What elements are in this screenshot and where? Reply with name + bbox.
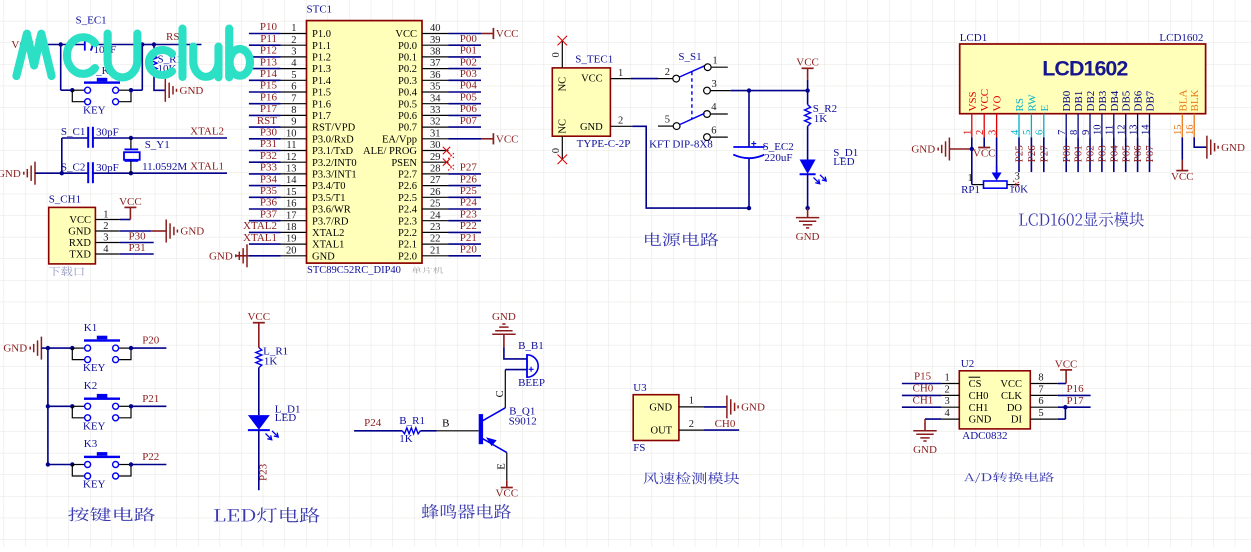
mcu pin 16 name P3.6/WR (312, 205, 351, 216)
mcu STC1 designator (307, 3, 333, 15)
lcd pin name DB2 (1085, 91, 1097, 112)
S_TEC1 top pin number 0 (551, 52, 562, 57)
ground (lcd left) (911, 138, 949, 161)
svg-text:DO: DO (1007, 403, 1023, 414)
svg-text:P22: P22 (460, 220, 477, 232)
mcu pin 36 number (430, 70, 441, 81)
caption LED灯电路 (214, 507, 320, 523)
net label P26 (lcd) (1026, 145, 1038, 163)
svg-text:S_TEC1: S_TEC1 (575, 54, 613, 66)
svg-text:VCC: VCC (395, 29, 417, 40)
node E junction (129, 136, 133, 140)
svg-text:S9012: S9012 (509, 415, 537, 427)
RP1 pin 3 lead (1007, 184, 1020, 186)
net label P20 (460, 244, 478, 256)
mcu pin 34 name P0.5 (398, 99, 417, 110)
svg-text:P01: P01 (460, 45, 477, 57)
lcd pin name DB3 (1097, 90, 1109, 111)
svg-text:RXD: RXD (69, 238, 92, 249)
lcd LCD1 designator (960, 32, 988, 44)
wire trunk to K1 (48, 347, 72, 349)
mcu pin 28 number (430, 164, 441, 175)
svg-text:39: 39 (430, 35, 441, 46)
svg-text:BLK: BLK (1189, 89, 1201, 111)
S_S1 pin 6 number (711, 125, 716, 136)
svg-text:P30: P30 (260, 127, 278, 139)
mcu pin 20 name GND (312, 251, 335, 262)
net label RST (257, 115, 277, 127)
mcu pin 6 number (291, 82, 296, 93)
ground (power circuit) (796, 208, 820, 243)
mcu pin 22 line (422, 243, 449, 245)
svg-text:P1.2: P1.2 (312, 53, 331, 64)
wire net P31 (120, 253, 154, 255)
mcu pin 35 name P0.4 (398, 88, 418, 99)
capacitor S_EC2 designator (763, 141, 794, 153)
mcu pin 25 name P2.4 (398, 205, 418, 216)
svg-text:3: 3 (1015, 171, 1020, 182)
lcd pin name RS (1014, 98, 1026, 111)
net label CH1 (adc) (913, 394, 934, 406)
node B junction (140, 42, 144, 46)
power port VCC (led branch) (796, 57, 819, 69)
svg-text:P1.7: P1.7 (312, 111, 331, 122)
wire lcd pin3 down (996, 137, 998, 172)
U2 pin 4 number (945, 408, 951, 419)
svg-text:P3.6/WR: P3.6/WR (312, 205, 351, 216)
mcu pin 37 name P0.2 (398, 64, 417, 75)
svg-text:VCC: VCC (973, 148, 996, 160)
net label P23 (258, 463, 270, 481)
power port VCC (pin31) (493, 133, 518, 145)
svg-text:DB2: DB2 (1085, 91, 1097, 112)
S_S1 pole 5 lead (658, 125, 673, 127)
svg-text:P25: P25 (460, 185, 478, 197)
wire lcd pin2 down (983, 137, 985, 147)
resistor S_R2 (805, 105, 811, 127)
wire lcd net P25 (1018, 137, 1020, 172)
net label P06 (460, 103, 478, 115)
resistor S_R1 value 10K (158, 63, 177, 75)
wire lcd pin15 down (1181, 137, 1183, 170)
resistor B_R1 designator (399, 415, 425, 427)
ground (download) (166, 220, 204, 243)
wire lcd pin16 hook (1194, 137, 1207, 147)
svg-text:GND: GND (68, 227, 91, 238)
net label P01 (460, 45, 477, 57)
wire LED to net P23 (258, 430, 260, 490)
wire node A down to key row (60, 45, 62, 91)
svg-text:20: 20 (286, 245, 297, 256)
S_S1 pin 1 number (712, 56, 717, 67)
U2 pin 3 line (941, 406, 959, 408)
svg-text:7: 7 (291, 93, 296, 104)
wire net P30 (249, 138, 281, 140)
svg-text:P36: P36 (260, 197, 278, 209)
mcu pin 10 name P3.0/RxD (312, 134, 354, 145)
diode S_D1 designator (833, 147, 858, 159)
transistor B_Q1 designator (509, 406, 535, 418)
net label P31 (129, 242, 146, 254)
wire net P24 (449, 208, 482, 210)
U2 pin 5 number (1038, 408, 1043, 419)
svg-text:S_EC1: S_EC1 (76, 15, 107, 27)
svg-text:XTAL2: XTAL2 (190, 125, 224, 137)
lcd part comment LCD1602 (1159, 32, 1203, 44)
caption A/D转换电路 (964, 472, 1054, 483)
wire node A to C(S_EC1) left plate (61, 44, 85, 46)
svg-text:17: 17 (286, 210, 297, 221)
wire pin2 to bottom rail (632, 126, 749, 208)
mcu pin 1 name P1.0 (312, 29, 331, 40)
svg-text:2: 2 (665, 67, 670, 78)
svg-text:P0.1: P0.1 (398, 53, 417, 64)
svg-text:VO: VO (992, 96, 1004, 112)
junction at S_K1 right pin (129, 88, 133, 92)
mcu pin 33 number (430, 105, 441, 116)
lcd pin 3 number (987, 130, 998, 135)
wire net P15 (249, 91, 281, 93)
svg-text:6: 6 (711, 125, 716, 136)
S_S1 throw 6 contact (704, 134, 711, 141)
resistor S_R2 designator (813, 103, 837, 115)
mcu pin 12 name P3.2/INT0 (312, 158, 357, 169)
wire net P01 (449, 56, 482, 58)
wire collector up (504, 370, 506, 408)
svg-text:P16: P16 (1067, 383, 1085, 395)
net label P02 (460, 56, 477, 68)
mcu pin 2 line (281, 44, 307, 46)
lcd pin name VO (992, 96, 1004, 112)
junction K2 right (129, 404, 133, 408)
wire net P33 (249, 173, 281, 175)
svg-text:P15: P15 (914, 371, 932, 383)
wire lcd net P00 (1065, 137, 1067, 172)
wire VCC to R(L_R1) (258, 323, 260, 348)
svg-text:P00: P00 (1061, 145, 1073, 163)
svg-text:38: 38 (430, 47, 441, 58)
wire L_R1 to LED (258, 368, 260, 416)
lcd pin name DB0 (1061, 90, 1073, 111)
U2 pin 2 line (941, 394, 959, 396)
node A junction (59, 42, 63, 46)
svg-text:10: 10 (286, 128, 297, 139)
net label P24 (460, 197, 478, 209)
wire node B to node C (142, 44, 154, 46)
switch S_S1 designator (678, 51, 701, 63)
svg-text:0: 0 (551, 148, 562, 153)
wire S_R2 to LED (807, 126, 809, 159)
mcu pin 39 line (422, 44, 449, 46)
wire node E to XTAL2 (131, 137, 227, 139)
svg-text:DB3: DB3 (1097, 90, 1109, 111)
mcu pin 27 number (430, 175, 441, 186)
capacitor S_EC1 value 10uF (94, 44, 117, 56)
wire pin3 to node G (731, 90, 749, 92)
mcu pin 4 name P1.3 (312, 64, 331, 75)
svg-text:P0.3: P0.3 (398, 76, 417, 87)
svg-text:1: 1 (712, 56, 717, 67)
wire net CH0 (wind) (704, 429, 740, 431)
svg-text:16: 16 (286, 199, 297, 210)
connector S_CH1 designator (49, 194, 81, 206)
svg-text:RST/VPD: RST/VPD (312, 123, 356, 134)
svg-text:4: 4 (711, 102, 717, 113)
wire net XTAL1 (249, 243, 281, 245)
node C junction (152, 42, 156, 46)
mcu pin 9 number (291, 117, 296, 128)
S_CH1 pin name GND (68, 227, 91, 238)
svg-text:31: 31 (430, 128, 441, 139)
buzzer B_B1 (527, 355, 538, 377)
S_S1 throw 1 contact (704, 64, 711, 71)
mcu pin 19 name XTAL1 (312, 240, 344, 251)
svg-text:13: 13 (1128, 125, 1139, 136)
svg-text:P1.6: P1.6 (312, 99, 331, 110)
svg-text:VCC: VCC (1171, 171, 1194, 183)
mcu pin 13 number (286, 164, 297, 175)
U2 pin name DO (1007, 403, 1023, 414)
svg-text:1: 1 (291, 23, 296, 34)
svg-text:9: 9 (1081, 130, 1092, 135)
svg-text:30pF: 30pF (96, 127, 119, 139)
svg-text:RW: RW (1026, 94, 1038, 112)
wire K2 to net P21 (131, 405, 166, 407)
wire pin31 to VCC (449, 138, 493, 140)
mcu pin 21 name P2.0 (398, 251, 417, 262)
net label XTAL2 (190, 125, 224, 137)
power port VCC (reset) (11, 39, 36, 51)
transistor B_Q1 emitter stroke (483, 437, 507, 452)
wire to C(S_C1) (62, 137, 88, 139)
U2 pin 4 line (941, 418, 959, 420)
svg-text:10K: 10K (1009, 183, 1028, 195)
wire net P22 (449, 231, 482, 233)
trunk junction row 1 (46, 346, 50, 350)
svg-text:EA/Vpp: EA/Vpp (382, 134, 417, 145)
lcd pin 15 number (1173, 125, 1184, 136)
wire trunk to K3 (48, 464, 72, 466)
svg-text:XTAL2: XTAL2 (312, 228, 344, 239)
mcu pin 21 number (430, 245, 441, 256)
svg-text:S_CH1: S_CH1 (49, 194, 81, 206)
module U3 comment FS (633, 442, 645, 454)
S_S1 throw 3 contact (704, 87, 711, 94)
svg-text:P22: P22 (142, 451, 159, 463)
mcu pin 9 line (281, 126, 307, 128)
lcd pin 6 line (1043, 114, 1045, 138)
lcd pin name E (1039, 105, 1051, 112)
RP1 pin 1 number (968, 173, 973, 184)
mcu pin 7 line (281, 103, 307, 105)
U3 pin name GND (649, 403, 672, 414)
net label P03 (460, 68, 478, 80)
svg-text:S_C2: S_C2 (61, 161, 85, 173)
mcu pin 33 name P0.6 (398, 111, 417, 122)
S_S1 pin 3 lead (710, 90, 730, 92)
U2 pin name GND (969, 415, 992, 426)
U2 pin name CLK (1001, 391, 1022, 402)
svg-text:15: 15 (286, 187, 297, 198)
no-connect top pin (558, 36, 568, 46)
wire net P31 (249, 150, 281, 152)
caption 蜂鸣器电路 (422, 504, 511, 519)
wire net P26 (449, 185, 482, 187)
wire net P15 (902, 383, 942, 385)
caption 风速检测模块 (643, 472, 739, 484)
mcu pin 18 name XTAL2 (312, 228, 344, 239)
mcu pin 10 line (281, 138, 307, 140)
wire VCC down (807, 68, 809, 104)
svg-text:P00: P00 (460, 33, 478, 45)
mcu pin 9 name RST/VPD (312, 123, 356, 134)
wire S_C1 to node E (93, 137, 131, 139)
svg-text:XTAL1: XTAL1 (190, 161, 224, 173)
svg-text:P3.0/RxD: P3.0/RxD (312, 134, 354, 145)
mcu pin 18 line (281, 231, 307, 233)
wire net P00 (449, 44, 482, 46)
lcd pin 8 number (1069, 130, 1080, 135)
capacitor S_C2 (88, 162, 93, 183)
svg-text:30: 30 (430, 140, 441, 151)
mcu STC1 body (307, 21, 423, 264)
lcd pin name RW (1026, 94, 1038, 112)
svg-text:TYPE-C-2P: TYPE-C-2P (577, 138, 631, 150)
S_TEC1 pin name GND (580, 122, 603, 133)
net label P33 (260, 162, 278, 174)
mcu pin 31 line (422, 138, 449, 140)
svg-text:DB5: DB5 (1121, 90, 1133, 111)
svg-text:3: 3 (103, 232, 108, 243)
svg-text:P12: P12 (260, 45, 277, 57)
wire pin40 to VCC (449, 33, 493, 35)
mcu pin 7 number (291, 93, 296, 104)
wire K1 to net P20 (131, 347, 166, 349)
wire net P03 (449, 79, 482, 81)
svg-text:P23: P23 (258, 463, 270, 481)
lcd pin 4 line (1018, 114, 1020, 138)
mcu pin 24 line (422, 220, 449, 222)
capacitor S_EC2 value 220uF (764, 152, 792, 164)
wire to S_K1 left (61, 89, 73, 91)
capacitor S_C1 designator (61, 126, 85, 138)
wire lcd net P03 (1101, 137, 1103, 172)
net label P00 (lcd) (1061, 145, 1073, 163)
wire emitter down (506, 453, 508, 481)
mcu pin 29 line (422, 161, 449, 163)
svg-text:P11: P11 (260, 33, 277, 45)
mcu pin 2 number (291, 35, 296, 46)
net label P16 (260, 91, 278, 103)
svg-text:P02: P02 (1085, 145, 1097, 162)
net label P10 (260, 21, 278, 33)
svg-text:P1.3: P1.3 (312, 64, 331, 75)
wire node C down to R(S_R1) (153, 45, 155, 56)
svg-text:GND: GND (209, 250, 233, 262)
net label P22 (460, 220, 477, 232)
lcd pin 8 line (1077, 114, 1079, 138)
svg-text:VCC: VCC (581, 74, 603, 85)
no-connect RP1 pin3 (1013, 181, 1020, 188)
net label B (442, 417, 449, 429)
svg-text:GND: GND (180, 226, 204, 238)
svg-text:LED: LED (833, 156, 854, 168)
svg-text:13: 13 (286, 164, 297, 175)
svg-text:0: 0 (551, 52, 562, 57)
switch S_K1 designator (90, 65, 115, 77)
svg-text:4: 4 (291, 58, 297, 69)
svg-text:P14: P14 (260, 68, 278, 80)
net label P25 (lcd) (1014, 145, 1026, 163)
svg-text:26: 26 (430, 187, 441, 198)
svg-text:P2.4: P2.4 (398, 205, 418, 216)
wire net P14 (249, 79, 281, 81)
svg-text:P25: P25 (1014, 145, 1026, 163)
svg-text:7: 7 (1038, 384, 1043, 395)
adc part number ADC0832 (962, 430, 1007, 442)
svg-text:3: 3 (291, 47, 296, 58)
S_TEC1 pin name NC top (558, 77, 569, 92)
svg-text:RP1: RP1 (961, 184, 980, 196)
mcu pin 3 line (281, 56, 307, 58)
net label P04 (460, 80, 478, 92)
wire U2 pin5 up to P17 (1058, 407, 1066, 419)
svg-text:4: 4 (1010, 129, 1021, 135)
mcu pin 19 number (286, 234, 297, 245)
mcu pin 17 name P3.7/RD (312, 216, 349, 227)
svg-text:P26: P26 (1026, 145, 1038, 163)
wire P24 to R(B_R1) (354, 430, 402, 432)
mcu pin 27 line (422, 185, 449, 187)
svg-text:P31: P31 (260, 138, 277, 150)
lcd pin name DB4 (1109, 90, 1121, 111)
lcd pin 2 number (975, 130, 986, 135)
wire net P30 (120, 242, 154, 244)
node D junction (60, 171, 64, 175)
resistor S_R1 designator (158, 54, 182, 66)
svg-text:12: 12 (286, 152, 297, 163)
mcu pin 26 line (422, 196, 449, 198)
lcd pin 14 number (1140, 124, 1151, 135)
U2 pin 6 number (1038, 396, 1043, 407)
svg-text:P2.7: P2.7 (398, 170, 417, 181)
svg-text:P23: P23 (460, 208, 478, 220)
net label P16 (1067, 383, 1085, 395)
svg-text:GND: GND (913, 444, 937, 456)
mcu pin 20 line (281, 255, 307, 257)
svg-text:8: 8 (1069, 130, 1080, 135)
wire lcd net P04 (1113, 137, 1115, 172)
svg-text:2: 2 (103, 221, 108, 232)
adc U2 body (959, 371, 1030, 429)
potentiometer RP1 designator (961, 184, 980, 196)
svg-text:P34: P34 (260, 173, 278, 185)
lcd pin 1 number (963, 130, 974, 135)
S_CH1 pin 3 line (95, 242, 120, 244)
svg-text:P03: P03 (460, 68, 478, 80)
svg-text:P1.1: P1.1 (312, 41, 331, 52)
svg-text:P30: P30 (129, 230, 147, 242)
S_TEC1 pin name NC bottom (558, 119, 569, 134)
svg-text:VCC: VCC (119, 196, 142, 208)
mcu pin 26 name P2.5 (398, 193, 417, 204)
mcu pin 19 line (281, 243, 307, 245)
net label P11 (260, 33, 277, 45)
net label P37 (260, 208, 278, 220)
potentiometer RP1 body (984, 181, 1008, 188)
net label P12 (260, 45, 277, 57)
transistor B_Q1 base bar (479, 414, 483, 444)
